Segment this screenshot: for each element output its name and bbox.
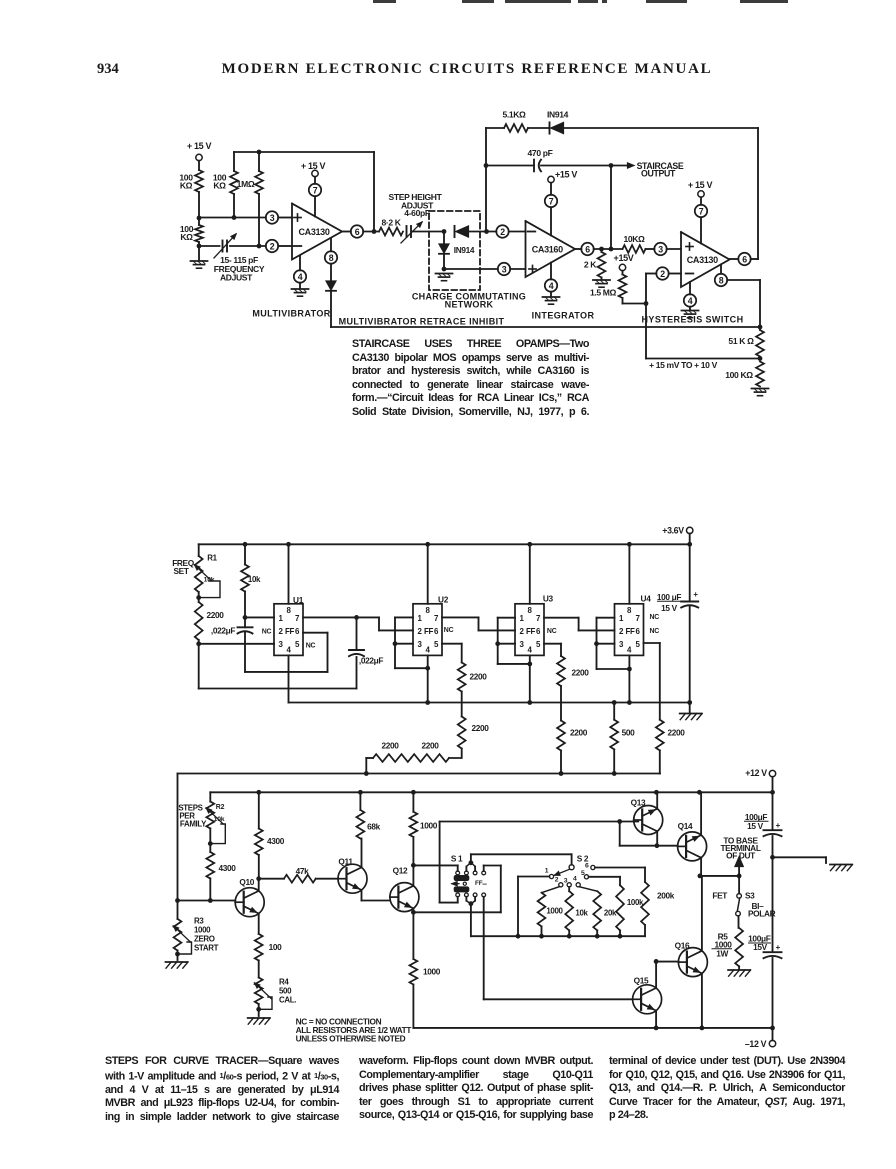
svg-text:4: 4	[688, 296, 693, 306]
svg-text:10KΩ: 10KΩ	[623, 234, 645, 244]
svg-text:+15V: +15V	[614, 253, 634, 263]
svg-text:3: 3	[619, 640, 624, 649]
svg-text:10k: 10k	[214, 816, 225, 823]
svg-text:POLAR: POLAR	[748, 909, 776, 919]
svg-text:8: 8	[719, 275, 724, 285]
svg-text:3: 3	[520, 640, 525, 649]
svg-text:10k: 10k	[248, 575, 261, 584]
svg-text:4: 4	[425, 646, 430, 655]
svg-text:6: 6	[295, 627, 300, 636]
svg-text:R2: R2	[216, 804, 225, 811]
svg-text:1: 1	[418, 614, 423, 623]
svg-text:1: 1	[520, 614, 525, 623]
svg-text:2200: 2200	[570, 728, 588, 738]
svg-text:OF DUT: OF DUT	[726, 850, 755, 860]
svg-text:6: 6	[536, 627, 541, 636]
svg-text:1: 1	[619, 614, 624, 623]
svg-text:5: 5	[536, 640, 541, 649]
svg-text:Q12: Q12	[393, 866, 408, 876]
svg-text:4-60pF: 4-60pF	[404, 208, 430, 218]
svg-text:1MΩ: 1MΩ	[237, 179, 255, 189]
svg-text:IN914: IN914	[454, 245, 475, 255]
svg-text:7: 7	[536, 614, 541, 623]
svg-text:+12 V: +12 V	[745, 768, 767, 778]
svg-text:Q16: Q16	[675, 941, 690, 951]
svg-text:2200: 2200	[206, 610, 224, 620]
svg-text:2200: 2200	[421, 741, 439, 751]
svg-text:1W: 1W	[716, 949, 728, 959]
svg-text:U1: U1	[293, 595, 304, 605]
svg-text:4: 4	[627, 646, 632, 655]
svg-text:OUTPUT: OUTPUT	[641, 169, 676, 179]
svg-text:4: 4	[527, 646, 532, 655]
svg-text:5.1KΩ: 5.1KΩ	[502, 110, 526, 120]
svg-text:2: 2	[500, 227, 505, 237]
svg-text:100 KΩ: 100 KΩ	[725, 370, 753, 380]
svg-text:6: 6	[585, 863, 589, 870]
svg-text:7: 7	[295, 614, 300, 623]
svg-text:FAMILY: FAMILY	[180, 820, 207, 829]
svg-text:2: 2	[619, 627, 624, 636]
svg-text:U2: U2	[438, 595, 449, 605]
svg-text:51 K Ω: 51 K Ω	[728, 336, 754, 346]
svg-text:2200: 2200	[381, 741, 399, 751]
svg-text:6: 6	[635, 627, 640, 636]
svg-text:SET: SET	[173, 566, 188, 576]
svg-text:2200: 2200	[667, 728, 685, 738]
svg-text:2: 2	[555, 876, 559, 883]
svg-text:8: 8	[527, 606, 532, 615]
svg-text:R1: R1	[207, 554, 217, 563]
svg-text:+ 15 V: + 15 V	[301, 161, 326, 171]
svg-text:15 V: 15 V	[661, 603, 677, 613]
svg-text:2200: 2200	[471, 723, 489, 733]
svg-text:FF: FF	[285, 627, 294, 636]
svg-text:4: 4	[298, 272, 303, 282]
svg-text:START: START	[194, 944, 219, 953]
svg-text:CA3130: CA3130	[299, 227, 330, 237]
svg-text:10k: 10k	[204, 577, 215, 584]
svg-text:4: 4	[286, 646, 291, 655]
svg-text:U4: U4	[641, 593, 652, 603]
svg-text:5: 5	[581, 870, 585, 877]
svg-text:6: 6	[742, 254, 747, 264]
svg-text:NC: NC	[306, 643, 316, 650]
svg-text:HYSTERESIS SWITCH: HYSTERESIS SWITCH	[642, 315, 744, 325]
svg-text:1: 1	[279, 614, 284, 623]
svg-text:5: 5	[635, 640, 640, 649]
svg-text:1000: 1000	[546, 907, 563, 916]
svg-text:CA3130: CA3130	[687, 255, 718, 265]
svg-text:R4: R4	[279, 978, 289, 987]
svg-text:2: 2	[418, 627, 423, 636]
svg-text:NC: NC	[650, 614, 660, 621]
svg-text:3: 3	[502, 264, 507, 274]
svg-text:2200: 2200	[571, 668, 589, 678]
svg-text:NETWORK: NETWORK	[445, 300, 494, 310]
svg-text:Q13: Q13	[631, 798, 646, 808]
svg-text:S3: S3	[745, 890, 755, 900]
svg-text:–: –	[482, 879, 487, 889]
svg-text:1: 1	[545, 868, 549, 875]
svg-text:7: 7	[699, 206, 704, 216]
svg-text:6: 6	[355, 227, 360, 237]
svg-text:100k: 100k	[627, 898, 644, 907]
svg-text:+ 15 V: + 15 V	[688, 180, 713, 190]
svg-text:IN914: IN914	[547, 110, 569, 120]
svg-text:NC: NC	[547, 628, 557, 635]
svg-text:7: 7	[313, 185, 318, 195]
svg-text:2: 2	[520, 627, 525, 636]
svg-text:6: 6	[434, 627, 439, 636]
svg-text:+15 V: +15 V	[555, 170, 577, 180]
svg-text:ADJUST: ADJUST	[220, 273, 253, 283]
svg-text:KΩ: KΩ	[213, 181, 226, 191]
svg-text:FF: FF	[626, 627, 635, 636]
svg-text:47k: 47k	[296, 866, 310, 876]
svg-text:15V: 15V	[753, 942, 768, 952]
svg-text:NC: NC	[444, 627, 454, 634]
svg-text:8: 8	[627, 606, 632, 615]
svg-text:S 1: S 1	[451, 854, 463, 864]
svg-text:7: 7	[549, 196, 554, 206]
svg-text:Q10: Q10	[239, 877, 254, 887]
svg-text:2: 2	[279, 627, 284, 636]
svg-text:3: 3	[418, 640, 423, 649]
svg-text:3: 3	[658, 244, 663, 254]
svg-text:10k: 10k	[575, 909, 588, 918]
svg-text:200k: 200k	[657, 891, 675, 901]
svg-text:8: 8	[329, 253, 334, 263]
svg-text:+: +	[693, 590, 698, 599]
svg-text:2: 2	[660, 269, 665, 279]
svg-text:15 V: 15 V	[747, 821, 763, 831]
svg-text:+: +	[776, 943, 781, 952]
svg-text:2200: 2200	[469, 672, 487, 682]
svg-text:8: 8	[425, 606, 430, 615]
svg-text:CAL.: CAL.	[279, 996, 296, 1005]
svg-text:Q15: Q15	[634, 976, 649, 986]
svg-text:4: 4	[549, 281, 554, 291]
svg-text:4300: 4300	[267, 836, 285, 846]
svg-text:FF: FF	[526, 627, 535, 636]
svg-text:20k: 20k	[604, 909, 617, 918]
svg-text:5: 5	[295, 640, 300, 649]
svg-text:FF: FF	[424, 627, 433, 636]
svg-text:ZERO: ZERO	[194, 935, 215, 944]
svg-text:1.5 MΩ: 1.5 MΩ	[590, 288, 617, 298]
svg-text:UNLESS OTHERWISE NOTED: UNLESS OTHERWISE NOTED	[296, 1034, 406, 1044]
svg-text:U3: U3	[543, 593, 554, 603]
svg-text:,022μF: ,022μF	[359, 656, 383, 666]
svg-text:2 K: 2 K	[584, 260, 597, 270]
svg-text:3: 3	[279, 640, 284, 649]
svg-text:68k: 68k	[367, 822, 381, 832]
svg-text:1000: 1000	[423, 967, 441, 977]
svg-text:+: +	[776, 821, 781, 830]
svg-text:FET: FET	[712, 891, 727, 901]
svg-text:CA3160: CA3160	[532, 245, 563, 255]
svg-text:NC: NC	[650, 628, 660, 635]
svg-text:6: 6	[585, 244, 590, 254]
svg-text:470 pF: 470 pF	[528, 148, 553, 158]
svg-text:+ 15 V: + 15 V	[187, 141, 212, 151]
svg-text:KΩ: KΩ	[180, 181, 193, 191]
svg-text:INTEGRATOR: INTEGRATOR	[532, 311, 595, 321]
svg-text:–12 V: –12 V	[745, 1039, 767, 1049]
svg-text:NC: NC	[262, 629, 272, 636]
svg-text:8: 8	[286, 606, 291, 615]
svg-text:+ 15 mV TO + 10 V: + 15 mV TO + 10 V	[649, 360, 718, 370]
svg-text:7: 7	[635, 614, 640, 623]
svg-text:MULTIVIBRATOR RETRACE INHIBI: MULTIVIBRATOR RETRACE INHIBIT	[339, 317, 505, 327]
svg-text:MULTIVIBRATOR: MULTIVIBRATOR	[252, 309, 330, 319]
svg-text:2: 2	[270, 241, 275, 251]
svg-text:3: 3	[270, 213, 275, 223]
svg-text:100: 100	[269, 942, 283, 952]
svg-text:7: 7	[434, 614, 439, 623]
svg-text:,022μF: ,022μF	[211, 626, 235, 636]
svg-text:Q14: Q14	[678, 821, 693, 831]
svg-text:500: 500	[622, 728, 636, 738]
svg-text:Q11: Q11	[338, 857, 353, 867]
svg-text:3: 3	[564, 877, 568, 884]
svg-text:100 μF: 100 μF	[657, 592, 681, 602]
svg-text:+3.6V: +3.6V	[662, 525, 684, 535]
svg-text:5: 5	[434, 640, 439, 649]
svg-text:8·2 K: 8·2 K	[381, 218, 401, 228]
svg-text:4: 4	[573, 875, 577, 882]
svg-text:500: 500	[279, 987, 292, 996]
svg-text:4300: 4300	[218, 863, 236, 873]
svg-text:R3: R3	[194, 917, 204, 926]
svg-text:KΩ: KΩ	[180, 232, 193, 242]
svg-text:1000: 1000	[420, 821, 438, 831]
svg-text:1000: 1000	[194, 926, 211, 935]
